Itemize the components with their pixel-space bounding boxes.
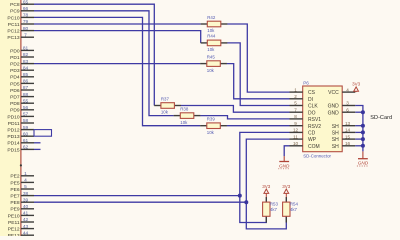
- MCU pin PE9 (40): [10, 204, 34, 213]
- junction gnd bus row 7: [361, 137, 365, 141]
- GND stem (COM): [283, 156, 285, 161]
- svg-text:PD3: PD3: [10, 68, 20, 74]
- wire SH/GND pin row 7 to bus: [355, 138, 363, 140]
- svg-text:66: 66: [23, 6, 29, 12]
- MCU pin PD1 (82): [10, 52, 34, 61]
- wire PC12 -> R44 (SDIO_CK): [34, 31, 201, 43]
- svg-text:PD14: PD14: [7, 141, 20, 147]
- wire PE8 -> WP net: [34, 201, 246, 203]
- svg-text:SH: SH: [332, 124, 339, 130]
- wire SH/GND pin row 6 to bus: [355, 131, 363, 133]
- wire PC11 -> R42 (SDIO_D3/CS): [34, 23, 201, 25]
- wire R42 -> CS pin1: [227, 24, 289, 92]
- svg-text:1: 1: [24, 171, 27, 177]
- svg-text:PE7: PE7: [10, 194, 20, 200]
- wire WP pin11 -> PE8 -> R54: [246, 139, 289, 229]
- MCU pin PD9 (56): [10, 105, 34, 114]
- svg-text:R42: R42: [207, 15, 216, 20]
- connector pin 2 DI: [290, 94, 314, 103]
- MCU pin PD13 (60): [7, 131, 34, 140]
- svg-text:41: 41: [23, 211, 29, 217]
- wire loop PD12-PD13: [34, 130, 52, 137]
- svg-text:PD8: PD8: [10, 101, 20, 107]
- connector pin 6 GND: [328, 107, 356, 116]
- svg-text:PC11: PC11: [8, 22, 20, 28]
- MCU pin PC9 (66): [10, 6, 34, 15]
- svg-text:PE5: PE5: [10, 180, 20, 186]
- svg-text:56: 56: [23, 105, 29, 111]
- svg-text:13: 13: [345, 121, 351, 126]
- svg-text:PE12: PE12: [8, 227, 20, 233]
- MCU pin PD3 (84): [10, 65, 34, 74]
- svg-text:16: 16: [345, 141, 351, 146]
- ground GND (COM): [278, 162, 290, 169]
- svg-text:PE11: PE11: [8, 220, 20, 226]
- svg-text:PD2: PD2: [10, 62, 20, 68]
- svg-text:4k7: 4k7: [270, 207, 278, 212]
- hidden pin dot on MCU border: [20, 164, 22, 166]
- svg-text:PD6: PD6: [10, 88, 20, 94]
- connector pin 11 WP: [290, 134, 317, 143]
- connector pin 5 CLK: [290, 101, 319, 110]
- svg-text:15: 15: [345, 134, 351, 139]
- svg-text:60: 60: [23, 131, 29, 137]
- svg-text:10k: 10k: [207, 130, 215, 135]
- svg-text:88: 88: [23, 92, 29, 98]
- svg-text:7: 7: [294, 107, 297, 112]
- GND stem (bus): [362, 151, 364, 158]
- wire R38 -> RSV1 pin8: [200, 116, 289, 119]
- MCU pin PE5 (4): [10, 178, 34, 187]
- svg-text:8: 8: [294, 114, 297, 119]
- wire CD pin12 -> PE7 -> R53: [240, 132, 290, 222]
- svg-text:WP: WP: [308, 137, 317, 143]
- svg-text:39: 39: [23, 197, 29, 203]
- connector pin 9 RSV2: [290, 121, 322, 130]
- svg-text:PD9: PD9: [10, 108, 20, 114]
- wire stub PD14: [34, 142, 41, 144]
- svg-text:2: 2: [294, 94, 297, 99]
- MCU pin PC13 (7): [7, 32, 34, 41]
- junction WP/PE8: [244, 200, 248, 204]
- resistor R37: [154, 96, 181, 114]
- svg-text:42: 42: [23, 217, 29, 223]
- MCU pin PD2 (83): [10, 59, 34, 68]
- svg-text:10: 10: [293, 141, 299, 146]
- svg-text:3: 3: [346, 101, 349, 106]
- svg-text:SD-Card: SD-Card: [370, 115, 392, 121]
- svg-text:P6: P6: [303, 81, 309, 86]
- svg-text:61: 61: [23, 138, 29, 144]
- svg-text:4: 4: [346, 87, 349, 92]
- MCU pin PE6 (5): [10, 184, 34, 193]
- svg-text:GND: GND: [279, 163, 290, 168]
- svg-text:PC13: PC13: [7, 35, 20, 41]
- svg-text:R37: R37: [161, 96, 170, 101]
- connector pin 13 SH: [332, 121, 356, 130]
- svg-text:PD4: PD4: [10, 75, 20, 81]
- svg-text:PC10: PC10: [7, 15, 20, 21]
- svg-text:11: 11: [293, 134, 298, 139]
- svg-text:5: 5: [294, 101, 297, 106]
- svg-text:84: 84: [23, 65, 29, 71]
- wire PE7 -> CD net: [34, 195, 240, 197]
- svg-text:78: 78: [23, 13, 29, 19]
- MCU pin PD7 (88): [10, 92, 34, 101]
- svg-text:R45: R45: [207, 54, 216, 59]
- svg-text:SH: SH: [332, 137, 339, 143]
- svg-text:10k: 10k: [207, 68, 215, 73]
- wire SH/GND pin row 5 to bus: [355, 125, 363, 127]
- svg-text:PD10: PD10: [7, 114, 20, 120]
- wire PC10 -> R39 (SDIO_D2): [34, 17, 200, 125]
- svg-text:10k: 10k: [207, 47, 215, 52]
- MCU pin PE12 (43): [8, 224, 34, 233]
- MCU pin PD15 (62): [7, 145, 34, 154]
- ground GND (bus): [357, 159, 369, 166]
- MCU pin PD6 (87): [10, 85, 34, 94]
- junction gnd bus row 5: [361, 124, 365, 128]
- wire R39 -> RSV2 pin9: [227, 125, 290, 127]
- svg-text:4: 4: [24, 178, 27, 184]
- svg-text:9: 9: [294, 121, 297, 126]
- svg-text:4k7: 4k7: [290, 207, 298, 212]
- svg-text:GND: GND: [358, 161, 369, 166]
- svg-text:PD5: PD5: [10, 81, 20, 87]
- svg-text:SH: SH: [332, 131, 339, 137]
- svg-text:COM: COM: [308, 144, 320, 150]
- svg-text:GND: GND: [328, 104, 340, 110]
- MCU pin PE10 (41): [8, 211, 34, 220]
- wire PC9 -> R38 (SDIO_D1): [34, 11, 174, 116]
- resistor R42: [201, 15, 228, 33]
- svg-text:PD12: PD12: [7, 128, 20, 134]
- svg-text:PE13: PE13: [8, 233, 20, 236]
- power 3V3 (R54): [285, 193, 287, 197]
- wire SH/GND pin row 3 to bus: [355, 111, 363, 113]
- connector P6 body: [303, 86, 343, 152]
- svg-text:57: 57: [23, 112, 29, 118]
- junction gnd bus row 8: [361, 144, 365, 148]
- connector pin 10 COM: [290, 141, 320, 150]
- svg-text:CD: CD: [308, 131, 316, 137]
- power 3V3 (VCC pin4): [355, 90, 357, 93]
- svg-text:7: 7: [24, 32, 27, 38]
- MCU pin PD12 (59): [7, 125, 34, 134]
- wire R44 -> CLK pin5: [227, 43, 289, 106]
- resistor R54: [283, 197, 299, 223]
- wire PC8 -> R37 (SDIO_D0): [34, 4, 154, 105]
- MCU pin PC11 (79): [8, 19, 34, 28]
- resistor R45: [200, 54, 227, 72]
- connector pin 4 VCC: [328, 87, 355, 96]
- MCU pin PC10 (78): [7, 13, 34, 22]
- svg-text:PE9: PE9: [10, 207, 20, 213]
- svg-text:87: 87: [23, 85, 29, 91]
- svg-text:R38: R38: [180, 106, 189, 111]
- svg-text:86: 86: [23, 79, 29, 85]
- svg-text:CS: CS: [308, 90, 316, 96]
- svg-text:SH: SH: [332, 144, 339, 150]
- svg-text:82: 82: [23, 52, 29, 58]
- svg-text:DI: DI: [308, 97, 313, 103]
- svg-text:44: 44: [23, 230, 29, 236]
- svg-text:40: 40: [23, 204, 29, 210]
- svg-text:PE10: PE10: [8, 213, 20, 219]
- svg-text:58: 58: [23, 118, 29, 124]
- svg-text:38: 38: [23, 191, 29, 197]
- svg-text:5: 5: [24, 184, 27, 190]
- svg-text:85: 85: [23, 72, 29, 78]
- junction CD/PE7: [238, 194, 242, 198]
- resistor R38: [174, 106, 201, 124]
- connector pin 14 SH: [332, 128, 356, 137]
- MCU pin PD10 (57): [7, 112, 34, 121]
- svg-text:GND: GND: [328, 110, 340, 116]
- svg-text:81: 81: [23, 46, 29, 52]
- svg-text:PD0: PD0: [10, 48, 20, 54]
- wire SH/GND pin row 8 to bus: [355, 145, 363, 147]
- svg-text:DO: DO: [308, 110, 316, 116]
- MCU pin PD4 (85): [10, 72, 34, 81]
- svg-text:55: 55: [23, 98, 29, 104]
- MCU pin PC12 (80): [7, 26, 34, 35]
- resistor R39: [200, 117, 227, 135]
- connector pin 1 CS: [290, 87, 316, 96]
- svg-text:79: 79: [23, 19, 29, 25]
- connector pin 8 RSV1: [290, 114, 322, 123]
- connector pin 16 SH: [332, 141, 356, 150]
- svg-text:43: 43: [23, 224, 29, 230]
- svg-text:PC12: PC12: [7, 29, 20, 35]
- MCU pin PD5 (86): [10, 79, 34, 88]
- resistor R44: [201, 34, 228, 52]
- MCU pin PD0 (81): [10, 46, 34, 55]
- MCU pin PD11 (58): [8, 118, 34, 127]
- MCU U? body (left edge, partially off-sheet): [0, 0, 21, 240]
- svg-text:RSV1: RSV1: [308, 117, 321, 123]
- svg-text:62: 62: [23, 145, 29, 151]
- svg-text:PE2: PE2: [10, 174, 20, 180]
- svg-text:PD1: PD1: [10, 55, 20, 61]
- svg-text:1: 1: [294, 87, 297, 92]
- connector pin 12 CD: [290, 128, 316, 137]
- svg-text:R44: R44: [207, 34, 216, 39]
- wire R45 -> DI pin2: [227, 64, 290, 99]
- svg-text:65: 65: [23, 0, 29, 5]
- svg-text:14: 14: [345, 128, 351, 133]
- svg-text:3V3: 3V3: [352, 82, 361, 87]
- MCU pin PE11 (42): [8, 217, 34, 226]
- svg-text:PC8: PC8: [10, 2, 20, 8]
- wire COM pin10 -> GND: [284, 146, 289, 156]
- resistor R53: [263, 197, 279, 223]
- svg-text:3V3: 3V3: [262, 184, 271, 189]
- MCU pin PD14 (61): [7, 138, 34, 147]
- svg-text:R39: R39: [207, 117, 216, 122]
- junction gnd bus row 3: [361, 110, 365, 114]
- svg-text:3V3: 3V3: [282, 184, 291, 189]
- svg-text:PC9: PC9: [10, 9, 20, 15]
- svg-text:PE8: PE8: [10, 200, 20, 206]
- power 3V3 (R53): [265, 193, 267, 197]
- svg-text:RSV2: RSV2: [308, 124, 321, 130]
- svg-text:PE6: PE6: [10, 187, 20, 193]
- svg-text:10k: 10k: [180, 120, 188, 125]
- svg-text:PD13: PD13: [7, 134, 20, 140]
- svg-text:PD11: PD11: [8, 121, 20, 127]
- MCU pin PD8 (55): [10, 98, 34, 107]
- svg-text:PD7: PD7: [10, 95, 20, 101]
- wire PD2 -> R45 (SDIO_CMD): [34, 63, 200, 65]
- svg-text:10k: 10k: [207, 28, 215, 33]
- svg-text:SD-Connector: SD-Connector: [303, 153, 331, 158]
- MCU pin PE7 (38): [10, 191, 34, 200]
- connector pin 15 SH: [332, 134, 356, 143]
- junction gnd bus row 6: [361, 130, 365, 134]
- wire GND pin3 -> gnd bus: [355, 106, 363, 152]
- MCU pin PE8 (39): [10, 197, 34, 206]
- MCU pin PC8 (65): [10, 0, 34, 8]
- MCU pin PE2 (1): [10, 171, 34, 180]
- svg-text:VCC: VCC: [328, 90, 339, 96]
- svg-text:6: 6: [346, 107, 349, 112]
- svg-text:PD15: PD15: [7, 147, 20, 153]
- MCU pin PE13 (44): [8, 230, 34, 239]
- wire R37 -> DO pin7: [181, 106, 290, 113]
- svg-text:10k: 10k: [161, 110, 169, 115]
- connector pin 3 GND: [328, 101, 356, 110]
- wire stub PD15: [34, 148, 41, 150]
- svg-text:83: 83: [23, 59, 29, 65]
- connector pin 7 DO: [290, 107, 316, 116]
- svg-text:12: 12: [293, 128, 299, 133]
- svg-text:CLK: CLK: [308, 104, 318, 110]
- svg-text:59: 59: [23, 125, 29, 131]
- svg-text:80: 80: [23, 26, 29, 32]
